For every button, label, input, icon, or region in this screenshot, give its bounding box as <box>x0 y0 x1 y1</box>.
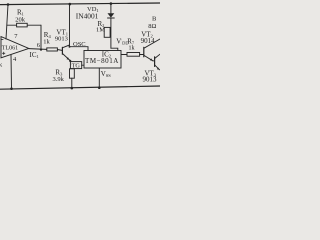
svg-text:9013: 9013 <box>55 35 68 42</box>
svg-text:TL061: TL061 <box>2 46 18 52</box>
svg-text:8Ω: 8Ω <box>148 23 156 30</box>
svg-text:OSC: OSC <box>73 41 86 48</box>
svg-text:1M: 1M <box>96 27 105 34</box>
svg-text:1k: 1k <box>129 46 135 52</box>
svg-text:9014: 9014 <box>141 37 156 45</box>
svg-text:20k: 20k <box>15 17 25 24</box>
svg-text:9013: 9013 <box>143 75 158 83</box>
svg-text:B: B <box>152 16 157 23</box>
svg-text:TM−801A: TM−801A <box>85 57 119 65</box>
svg-text:TG: TG <box>72 63 81 70</box>
svg-text:3.9k: 3.9k <box>53 76 65 83</box>
svg-text:1k: 1k <box>43 38 50 45</box>
svg-text:IN4001: IN4001 <box>76 12 99 21</box>
